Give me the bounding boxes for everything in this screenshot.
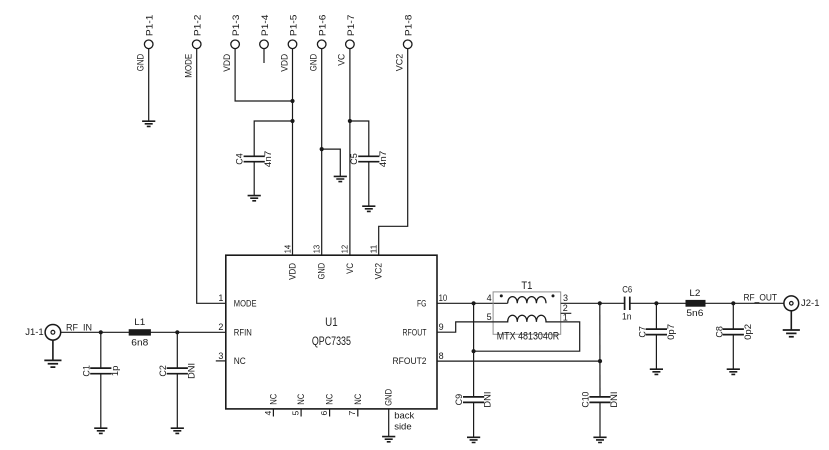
pin 3 stub [216, 360, 226, 362]
svg-text:GND: GND [309, 54, 319, 72]
svg-text:GND: GND [317, 262, 327, 279]
svg-text:VC: VC [337, 54, 347, 66]
pin 1 MODE label [218, 293, 256, 308]
node C1 junction [99, 330, 103, 334]
connector J1-1 [25, 325, 61, 341]
wire GND P1-6 to U1 pin 13 [321, 49, 323, 256]
svg-text:P1-5: P1-5 [288, 15, 298, 37]
ground [650, 369, 663, 374]
connector pin P1-3 [222, 15, 241, 72]
inductor L1 6n8 [129, 317, 151, 348]
svg-text:7: 7 [347, 411, 357, 416]
wire T1 pin1 return [474, 322, 580, 351]
svg-text:FG: FG [417, 298, 427, 308]
op-amp U1 QPC7335 [226, 255, 437, 409]
wire VC2 P1-8 to U1 pin 11 [379, 49, 408, 256]
svg-text:U1: U1 [325, 317, 338, 329]
svg-text:NC: NC [325, 393, 335, 404]
svg-text:C6: C6 [622, 284, 632, 295]
pin 3 NC label [218, 351, 246, 366]
connector pin P1-8 [395, 15, 414, 72]
wire C6 to C7 node [630, 302, 686, 304]
svg-text:C9: C9 [454, 394, 464, 406]
svg-text:3: 3 [563, 293, 568, 303]
net RF_IN label [66, 323, 92, 334]
svg-text:NC: NC [353, 393, 363, 404]
capacitor C7 0p7 [638, 303, 676, 369]
node C7 junction [654, 301, 658, 305]
svg-text:4n7: 4n7 [263, 151, 273, 168]
pin 12 VC label [340, 245, 355, 274]
svg-text:P1-8: P1-8 [404, 15, 414, 37]
svg-text:L2: L2 [689, 288, 700, 299]
svg-text:MODE: MODE [234, 298, 257, 308]
ground [727, 369, 740, 374]
node C2 junction [175, 330, 179, 334]
svg-text:4n7: 4n7 [378, 151, 388, 168]
wire C5 branch [350, 121, 369, 156]
capacitor C9 DNI [454, 392, 493, 438]
ground [467, 437, 480, 442]
svg-text:6n8: 6n8 [131, 337, 148, 348]
svg-text:13: 13 [312, 245, 322, 254]
ground [44, 360, 61, 367]
capacitor C5 4n7 [349, 151, 388, 206]
svg-text:C7: C7 [638, 326, 648, 338]
ground [382, 437, 395, 442]
connector pin P1-4 [260, 15, 270, 49]
svg-text:VDD: VDD [279, 54, 289, 72]
svg-text:VC: VC [345, 262, 355, 273]
pin 7 NC [347, 393, 363, 416]
wire L2 to J2 [706, 302, 785, 304]
svg-text:RF_IN: RF_IN [66, 323, 92, 334]
svg-text:DNI: DNI [186, 363, 196, 379]
svg-text:4: 4 [263, 411, 273, 416]
svg-text:RF_OUT: RF_OUT [744, 292, 778, 303]
pin 2 RFIN label [218, 322, 251, 337]
capacitor C10 DNI [581, 392, 620, 438]
svg-text:2: 2 [563, 303, 568, 313]
svg-text:4: 4 [487, 293, 492, 303]
svg-text:VDD: VDD [288, 262, 298, 279]
wire RFOUT2 pin8 [437, 360, 600, 362]
node RFOUT2 junction [598, 359, 602, 363]
svg-text:NC: NC [268, 393, 278, 404]
svg-text:1: 1 [563, 313, 568, 323]
ground [783, 330, 800, 337]
pin 5 NC [291, 393, 307, 416]
svg-text:10: 10 [439, 293, 448, 303]
pin 11 VC2 label [369, 245, 384, 280]
connector J2-1 [784, 296, 820, 311]
svg-text:P1-2: P1-2 [193, 15, 203, 37]
svg-text:GND: GND [384, 388, 394, 405]
svg-text:C1: C1 [81, 365, 91, 377]
ground [593, 437, 606, 442]
wire J1 ground stem [52, 340, 54, 361]
capacitor C8 0p2 [714, 303, 752, 369]
svg-text:11: 11 [369, 245, 379, 254]
svg-text:8: 8 [439, 351, 444, 361]
svg-text:2: 2 [218, 322, 223, 332]
ground [362, 206, 375, 211]
connector pin P1-2 [184, 15, 203, 78]
capacitor C1 1p [81, 332, 120, 428]
svg-text:DNI: DNI [483, 392, 493, 408]
capacitor C6 1n [622, 284, 632, 322]
svg-text:NC: NC [234, 356, 246, 366]
svg-text:P1-7: P1-7 [346, 15, 356, 37]
wire MODE net P1-2 to U1 pin 1 [197, 49, 226, 304]
svg-text:GND: GND [136, 54, 146, 72]
svg-text:12: 12 [340, 245, 350, 254]
wire GND branch [322, 149, 341, 176]
ground [334, 176, 347, 181]
transformer T1 MTX 4813040R [487, 280, 572, 343]
ground [171, 428, 184, 433]
capacitor C2 DNI [158, 332, 197, 428]
wire output to C10 [599, 303, 601, 397]
svg-text:L1: L1 [134, 317, 145, 328]
wire VC P1-7 to U1 pin 12 [349, 49, 351, 256]
node VC-C5 junction [348, 119, 352, 123]
wire C4 branch [254, 121, 292, 156]
svg-text:P1-6: P1-6 [318, 15, 328, 37]
svg-text:14: 14 [282, 245, 292, 254]
pin GND back side [384, 388, 415, 436]
pin 8 RFOUT2 label [393, 351, 444, 366]
svg-text:RFOUT: RFOUT [403, 327, 427, 337]
node GND junction [320, 147, 324, 151]
node VDD junction [290, 99, 294, 103]
svg-text:back: back [394, 411, 414, 422]
node output junction [598, 301, 602, 305]
svg-text:RFIN: RFIN [234, 327, 252, 337]
svg-text:VC2: VC2 [395, 54, 405, 72]
svg-text:C2: C2 [158, 365, 168, 377]
svg-text:P1-4: P1-4 [260, 15, 270, 37]
pin 10 FG label [417, 293, 447, 308]
pin 13 GND label [312, 245, 327, 280]
inductor L2 5n6 [686, 288, 706, 319]
svg-text:QPC7335: QPC7335 [312, 336, 351, 348]
svg-text:P1-1: P1-1 [145, 15, 155, 37]
wire P1-1 to ground [148, 49, 150, 121]
wire VDD P1-5 to U1 pin 14 [292, 49, 294, 256]
svg-text:3: 3 [218, 351, 223, 361]
pin 4 NC [263, 393, 279, 416]
svg-text:C10: C10 [581, 392, 591, 408]
wire RFOUT pin9 to T1 pin5 [437, 322, 493, 332]
wire FG pin10 [437, 302, 508, 304]
svg-text:C8: C8 [714, 326, 724, 338]
node C8 junction [731, 301, 735, 305]
node FG junction [472, 301, 476, 305]
svg-text:1: 1 [218, 293, 223, 303]
svg-text:DNI: DNI [609, 392, 619, 408]
svg-text:1p: 1p [110, 366, 120, 377]
svg-text:0p7: 0p7 [666, 324, 676, 340]
ground [142, 121, 155, 126]
connector pin P1-7 [337, 15, 356, 66]
svg-text:0p2: 0p2 [743, 324, 753, 340]
node return junction [472, 349, 476, 353]
svg-text:5n6: 5n6 [686, 308, 703, 319]
svg-text:VC2: VC2 [374, 263, 384, 280]
pin 6 NC [319, 393, 335, 416]
connector pin P1-6 [309, 15, 328, 72]
svg-text:RFOUT2: RFOUT2 [393, 356, 427, 366]
svg-text:C5: C5 [349, 153, 359, 165]
svg-text:J1-1: J1-1 [25, 327, 44, 338]
pin 14 VDD label [282, 245, 297, 280]
wire T1 pin3 output [561, 302, 625, 304]
svg-text:6: 6 [319, 411, 329, 416]
svg-text:side: side [394, 422, 411, 433]
svg-text:9: 9 [439, 322, 444, 332]
pin 9 RFOUT label [403, 322, 444, 337]
wire stub P1-4 [263, 49, 265, 63]
svg-text:T1: T1 [521, 280, 532, 292]
svg-text:5: 5 [291, 411, 301, 416]
svg-text:VDD: VDD [222, 54, 232, 72]
node VDD-C4 junction [290, 119, 294, 123]
svg-text:NC: NC [296, 393, 306, 404]
wire RF_IN [60, 331, 226, 333]
wire VDD net P1-3 to P1-5 [235, 49, 292, 101]
svg-text:MTX 4813040R: MTX 4813040R [497, 331, 560, 343]
ground [248, 196, 261, 201]
capacitor C4 4n7 [235, 151, 274, 196]
net RF_OUT label [744, 292, 778, 303]
svg-text:5: 5 [487, 312, 492, 322]
svg-text:P1-3: P1-3 [231, 15, 241, 37]
svg-text:MODE: MODE [184, 54, 194, 78]
connector pin P1-5 [279, 15, 298, 72]
svg-text:1n: 1n [622, 311, 632, 322]
wire J2 ground stem [790, 311, 792, 330]
ground [94, 428, 107, 433]
svg-text:C4: C4 [235, 153, 245, 165]
connector pin P1-1 [136, 15, 155, 72]
svg-text:J2-1: J2-1 [801, 298, 820, 309]
wire FG to C9 vertical [473, 303, 475, 397]
